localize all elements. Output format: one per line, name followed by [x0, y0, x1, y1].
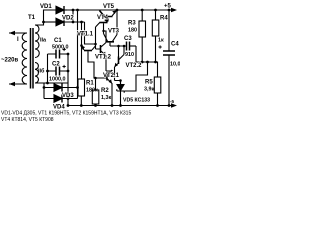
wire input top ~220V [9, 32, 27, 34]
svg-text:C1: C1 [54, 38, 62, 44]
resistor R1 [78, 79, 85, 96]
zener diode VD5 KC133 [117, 85, 124, 91]
svg-text:VT4: VT4 [97, 15, 109, 21]
transformer T1 core [31, 28, 34, 89]
svg-text:1000,0: 1000,0 [49, 77, 66, 83]
svg-text:C3: C3 [124, 36, 132, 42]
wire VT3 collector to rail [116, 10, 118, 35]
svg-text:VT3: VT3 [108, 29, 120, 35]
svg-text:-5: -5 [170, 99, 175, 104]
diode VD3 [54, 84, 62, 92]
wire VD2 node to VT1.1 emitter and R1 [81, 22, 83, 79]
svg-text:10,0: 10,0 [170, 62, 180, 68]
wire VD2 node to VT4 collector [85, 22, 96, 44]
svg-text:VT2.1: VT2.1 [103, 73, 120, 79]
svg-text:VD1: VD1 [40, 4, 52, 10]
arrowhead input bottom [9, 82, 15, 86]
capacitor C3 [130, 45, 137, 47]
svg-text:1к: 1к [158, 38, 164, 44]
resistor R2 [92, 90, 99, 104]
bottom common rail [68, 105, 173, 107]
resistor R3 [139, 21, 146, 37]
svg-text:VT4 КТ814, VT5 КТ908: VT4 КТ814, VT5 КТ908 [1, 117, 54, 123]
svg-text:VD5 КС133: VD5 КС133 [123, 98, 150, 104]
wire C1 C2 right vertical to common [67, 54, 69, 106]
svg-text:R2: R2 [101, 88, 109, 94]
svg-text:IIа: IIа [40, 38, 47, 44]
emitter arrow VT4 [104, 19, 108, 22]
resistor R5 [154, 77, 161, 93]
arrowhead output common [171, 103, 177, 107]
svg-text:I: I [17, 37, 19, 43]
wire VD5 cathode to divider node [124, 62, 147, 91]
top rail +5 [64, 9, 173, 11]
wire C3 right down [135, 46, 137, 62]
diode VD1 [56, 6, 64, 14]
emitter arrow VT1.1 [82, 46, 86, 50]
plus C4 [159, 45, 162, 48]
wire C1 C2 left vertical [47, 54, 49, 83]
wire R3 leads [141, 10, 143, 62]
svg-text:VT1.1: VT1.1 [77, 32, 94, 38]
wire R5 bottom [157, 93, 159, 106]
wire secondary top to diodes [35, 10, 56, 25]
svg-text:~220в: ~220в [1, 58, 19, 64]
transistor VT3 [106, 41, 114, 43]
plus C2 [63, 65, 66, 68]
wire VT3 base to C3 [110, 46, 127, 58]
capacitor C4 [168, 10, 170, 106]
svg-text:C2: C2 [52, 62, 60, 68]
wire R4 leads [155, 10, 157, 62]
svg-text:C4: C4 [171, 42, 179, 48]
wire VD2 branch [44, 21, 57, 23]
plus signs [63, 45, 162, 68]
emitter arrow VT2.2 [115, 63, 119, 67]
transistor VT5 [100, 11, 113, 17]
svg-text:R5: R5 [145, 80, 153, 86]
wire divider node y62 [136, 62, 158, 77]
wire VD1-VD2 cathode tie [72, 10, 74, 22]
svg-text:VD1-VD4 Д305, VT1 К198НТ5, VT2: VD1-VD4 Д305, VT1 К198НТ5, VT2 К159НТ1А,… [1, 111, 131, 117]
arrowhead output +5 [171, 8, 177, 12]
wire secondary bottom to diodes [35, 83, 68, 99]
svg-text:R3: R3 [128, 21, 136, 27]
svg-text:IIб: IIб [38, 68, 45, 75]
transistor VT2.1 [106, 73, 108, 81]
transformer T1 primary winding I [22, 33, 27, 84]
capacitor C2 [48, 70, 69, 72]
emitter arrow VT2.1 [109, 79, 113, 83]
plus C1 [63, 48, 66, 51]
svg-text:VT1.2: VT1.2 [95, 55, 112, 61]
transistor VT4 [100, 22, 108, 24]
wire R2 leads [95, 78, 97, 106]
svg-text:5000,0: 5000,0 [52, 45, 69, 51]
svg-text:3,9к: 3,9к [144, 87, 154, 93]
wire rectifier plus vertical [77, 10, 79, 99]
svg-text:+5: +5 [164, 4, 172, 10]
transistor VT1.1 [84, 50, 92, 52]
svg-text:R4: R4 [160, 16, 168, 22]
capacitor C1 [48, 53, 69, 55]
resistor R4 [152, 20, 159, 36]
svg-text:180: 180 [128, 28, 137, 34]
junction dots [72, 9, 75, 12]
svg-text:180к: 180к [86, 88, 98, 94]
transistor VT2.2 [118, 57, 120, 65]
diode VD4 [54, 95, 62, 103]
emitter arrow VT5 [112, 11, 116, 14]
arrowhead input top [9, 31, 15, 35]
svg-text:1,3к: 1,3к [101, 95, 111, 101]
transformer T1 secondary winding IIa [35, 25, 39, 58]
emitter arrow VT1.2 [103, 52, 107, 56]
transformer T1 secondary winding IIb [35, 63, 38, 84]
wire R1 bottom [80, 96, 82, 106]
wire input bottom ~220V [9, 83, 27, 85]
svg-text:R1: R1 [86, 81, 94, 87]
svg-text:VT2.2: VT2.2 [126, 63, 143, 69]
svg-text:910: 910 [125, 52, 134, 58]
svg-text:VT5: VT5 [103, 4, 115, 10]
diode VD2 [56, 18, 64, 26]
transistor VT1.2 [100, 45, 102, 53]
svg-text:VD2: VD2 [62, 16, 74, 22]
svg-text:T1: T1 [28, 15, 36, 21]
svg-text:VD3: VD3 [62, 93, 74, 99]
